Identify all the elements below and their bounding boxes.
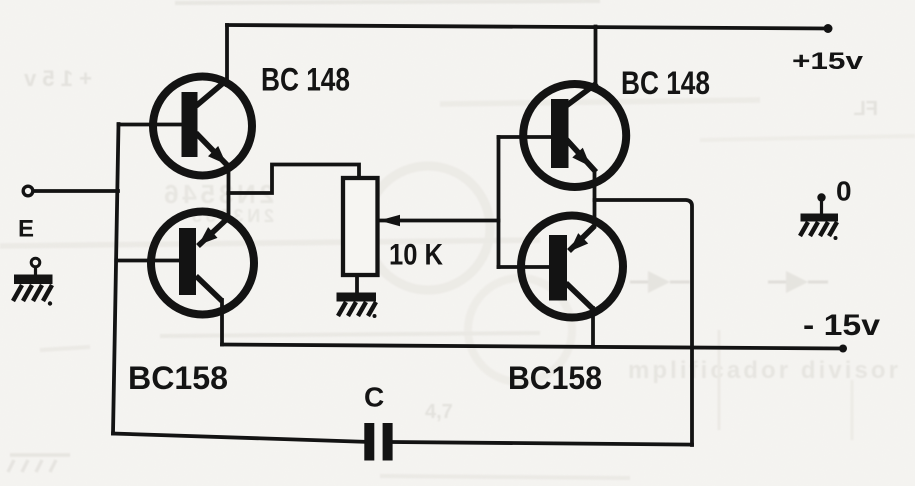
wire: right bases vertical — [497, 137, 501, 267]
svg-text:BC 148: BC 148 — [621, 65, 710, 101]
svg-text:+15v: +15v — [792, 48, 864, 75]
wire: pot bottom lead — [355, 274, 359, 294]
wire: left emitters vertical — [227, 165, 231, 218]
wire: Q3 collector vertical — [594, 27, 598, 89]
input terminal E — [23, 186, 33, 196]
output terminal 0 with ground — [800, 193, 838, 240]
wire: Q4 base lead — [499, 265, 550, 269]
-15v rail end dot — [839, 345, 847, 353]
ghost arrow 1 — [648, 271, 670, 293]
transistor Q2 BC158 (bottom-left PNP) — [151, 212, 254, 315]
transistor Q1 BC148 (top-left NPN) — [153, 77, 252, 176]
svg-text:BC 148: BC 148 — [261, 62, 350, 98]
ghost circle lower — [468, 278, 572, 382]
wire: output tap to down right — [595, 200, 693, 445]
potentiometer R1 10K body — [343, 178, 378, 275]
wire: +15v top rail — [227, 25, 828, 29]
wire: -15v rail — [222, 345, 843, 349]
wire: bottom feedback right segment — [393, 442, 692, 445]
ghost circle middle — [366, 166, 490, 290]
wire: left bases vertical — [113, 124, 119, 434]
wire: Q2 collector vertical — [220, 300, 224, 345]
ground at input (chassis) — [13, 258, 53, 305]
wire: jog from emitters to pot top — [229, 165, 360, 194]
svg-text:0: 0 — [836, 176, 852, 207]
ghost arrow 2 — [786, 271, 808, 293]
transistor Q3 BC148 (top-right NPN) — [523, 83, 626, 187]
wire: pot wiper line — [380, 219, 499, 223]
svg-text:BC158: BC158 — [508, 360, 602, 396]
wire: right emitters vertical — [593, 172, 597, 226]
potentiometer wiper arrowhead — [379, 215, 400, 227]
wire: Q3 base lead — [499, 135, 552, 139]
svg-text:BC158: BC158 — [128, 360, 228, 396]
transistor Q4 BC158 (bottom-right PNP) — [521, 216, 623, 318]
svg-text:FL: FL — [854, 98, 878, 120]
svg-text:- 15v: - 15v — [803, 309, 880, 342]
svg-text:E: E — [18, 216, 34, 243]
capacitor C plates — [364, 423, 374, 461]
wire: Q4 collector vertical — [591, 308, 595, 346]
ground under potentiometer — [337, 293, 377, 319]
ghost streaks — [0, 240, 540, 246]
wire: input E lead — [34, 189, 119, 193]
svg-text:C: C — [364, 382, 384, 413]
wire: bottom feedback left segment — [113, 434, 365, 442]
svg-text:10 K: 10 K — [389, 239, 443, 272]
svg-text:4,7: 4,7 — [425, 401, 453, 423]
+15v rail end dot — [824, 24, 833, 33]
wire: Q1 collector vertical — [225, 25, 229, 85]
wire: Q2 base lead — [116, 259, 179, 263]
main schematic ink — [34, 25, 844, 445]
wire: Q1 base lead — [119, 123, 183, 127]
